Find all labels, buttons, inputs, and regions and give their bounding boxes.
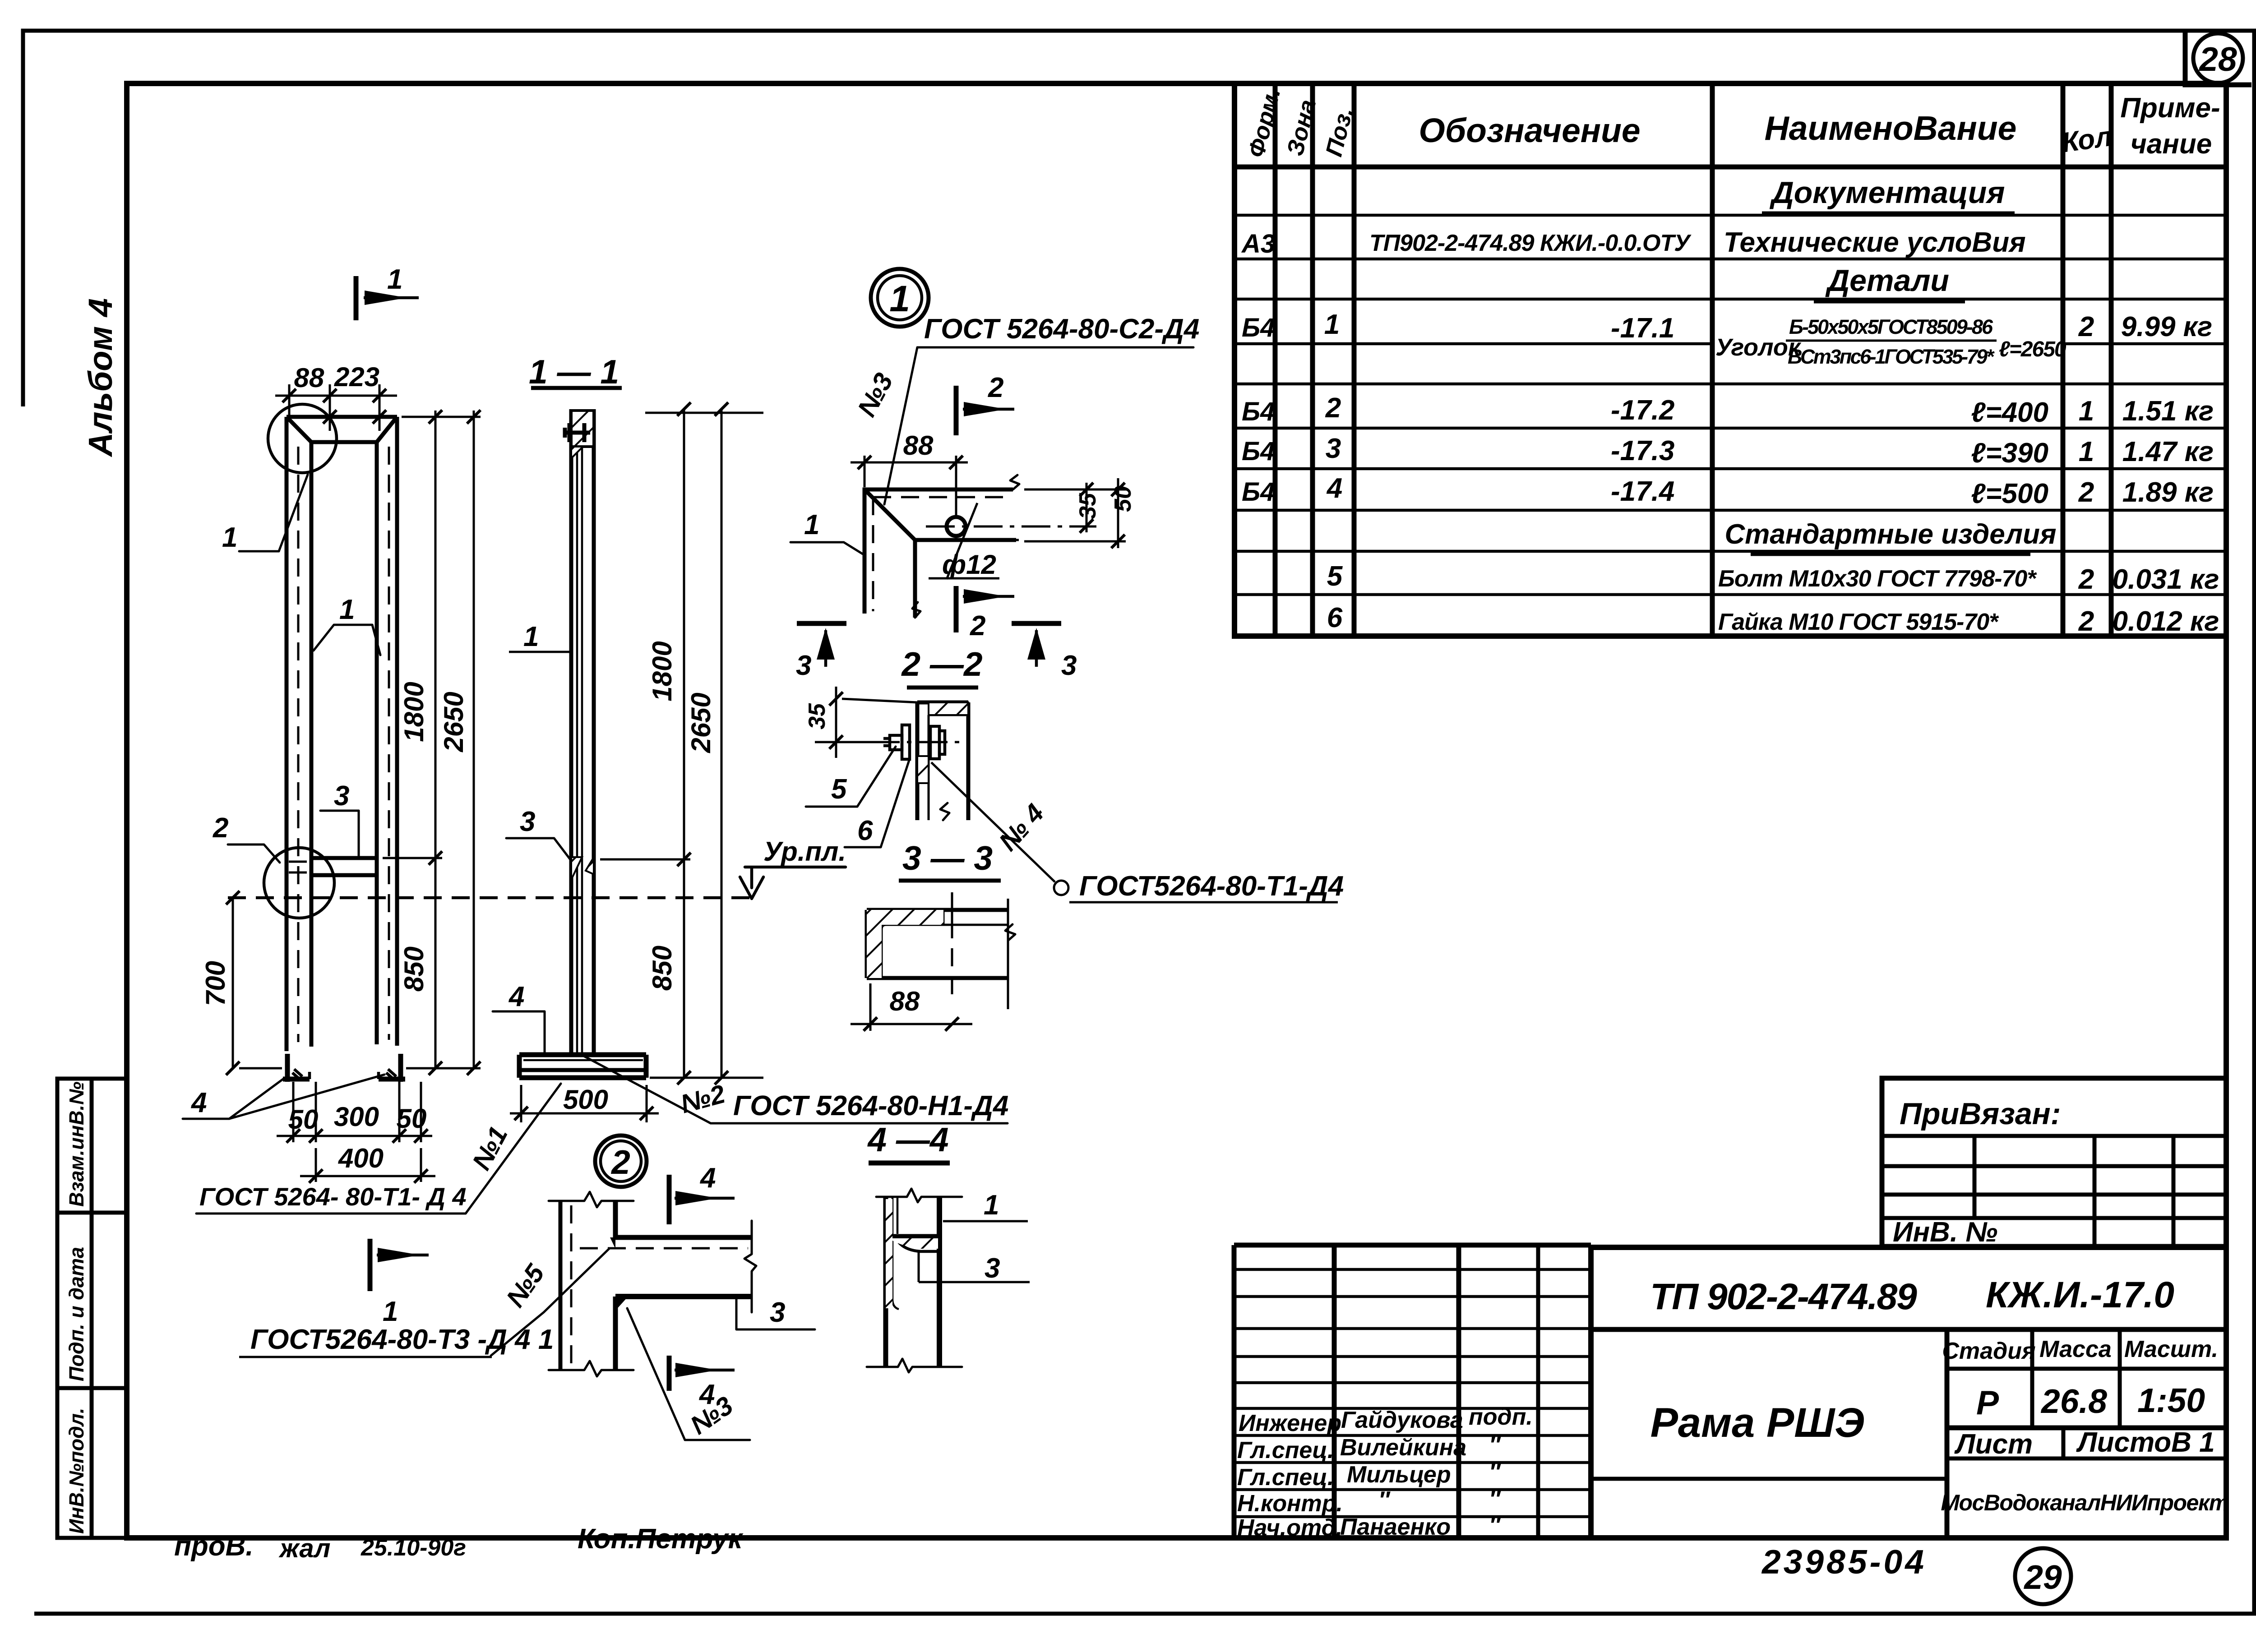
svg-text:1: 1 — [1324, 309, 1340, 340]
svg-text:Б-50х50х5ГОСТ8509-86: Б-50х50х5ГОСТ8509-86 — [1789, 315, 1993, 338]
svg-text:2 —2: 2 —2 — [901, 645, 982, 683]
svg-text:ℓ=2650: ℓ=2650 — [1999, 337, 2066, 361]
svg-text:ИнВ.№подл.: ИнВ.№подл. — [65, 1408, 88, 1534]
svg-text:Приме-: Приме- — [2120, 92, 2220, 124]
section 4-4 angle cut — [867, 1189, 962, 1372]
section 2-2 angle cut — [917, 702, 968, 820]
dims 1800 2650 850 section — [600, 402, 763, 1084]
ground dashed line — [228, 896, 750, 900]
svg-text:1.89 кг: 1.89 кг — [2122, 477, 2214, 508]
svg-text:ℓ=390: ℓ=390 — [1971, 438, 2048, 469]
svg-text:2: 2 — [2078, 311, 2094, 342]
svg-text:2650: 2650 — [439, 692, 469, 752]
svg-text:Лист: Лист — [1954, 1429, 2033, 1460]
privyazan box — [1882, 1078, 2226, 1246]
signature table — [1234, 1245, 1591, 1538]
svg-text:1: 1 — [2079, 436, 2094, 467]
svg-text:подп.: подп. — [1469, 1404, 1533, 1430]
svg-text:ТП 902-2-474.89: ТП 902-2-474.89 — [1650, 1276, 1917, 1317]
svg-text:А3: А3 — [1241, 229, 1275, 258]
svg-text:Гайка М10 ГОСТ 5915-70*: Гайка М10 ГОСТ 5915-70* — [1718, 609, 1999, 635]
svg-text:″: ″ — [1378, 1487, 1391, 1513]
svg-text:2: 2 — [2078, 606, 2094, 637]
svg-text:1.51 кг: 1.51 кг — [2122, 396, 2214, 427]
svg-text:88: 88 — [294, 363, 324, 393]
svg-text:2: 2 — [988, 372, 1003, 403]
svg-text:Вилейкина: Вилейкина — [1340, 1435, 1466, 1461]
elevation cross member pos.3 — [311, 858, 377, 875]
dim 700 — [200, 891, 282, 1075]
svg-text:5: 5 — [831, 774, 847, 805]
svg-text:1: 1 — [523, 621, 539, 652]
svg-text:50: 50 — [288, 1104, 319, 1135]
svg-text:23985-04: 23985-04 — [1761, 1543, 1927, 1581]
dim 88 section 3-3 — [851, 983, 972, 1031]
bolt M10 with nut — [871, 725, 970, 759]
svg-text:″: ″ — [1489, 1486, 1501, 1512]
dim 88 detail — [851, 430, 968, 517]
svg-text:Б4: Б4 — [1242, 437, 1275, 466]
dim 88 223 top — [275, 362, 397, 431]
section 1-1 weld top — [571, 447, 583, 458]
svg-text:4: 4 — [508, 981, 524, 1012]
svg-text:1: 1 — [222, 522, 237, 553]
section mark 2 top — [956, 372, 1014, 435]
svg-text:ℓ=500: ℓ=500 — [1971, 478, 2048, 509]
svg-text:3: 3 — [985, 1253, 1000, 1284]
svg-text:35: 35 — [1075, 493, 1101, 519]
detail circle 1 on corner — [268, 404, 337, 473]
svg-text:ГОСТ 5264- 80-Т1- Д 4: ГОСТ 5264- 80-Т1- Д 4 — [199, 1182, 467, 1211]
svg-text:Инженер: Инженер — [1239, 1410, 1341, 1436]
detail circle 2 on joint — [264, 848, 334, 918]
svg-text:1: 1 — [387, 264, 402, 295]
svg-text:1.47 кг: 1.47 кг — [2122, 436, 2214, 467]
section mark 4 bottom — [669, 1356, 735, 1410]
svg-text:3: 3 — [796, 650, 811, 681]
sheet number circle 29 — [2015, 1548, 2071, 1604]
dim 400 — [300, 1143, 435, 1183]
svg-text:″: ″ — [1489, 1432, 1501, 1458]
left stamp boxes — [57, 1079, 127, 1538]
svg-text:1: 1 — [889, 278, 910, 319]
section 1-1 top bolt — [564, 423, 590, 442]
svg-text:ПриВязан:: ПриВязан: — [1900, 1097, 2061, 1131]
dim 50 detail — [1024, 478, 1136, 548]
detail circle mark 1 — [871, 269, 929, 327]
svg-text:Мильцер: Мильцер — [1347, 1462, 1451, 1488]
svg-text:ЛистоВ 1: ЛистоВ 1 — [2076, 1427, 2215, 1458]
svg-text:НаименоВание: НаименоВание — [1765, 109, 2017, 147]
svg-text:жал: жал — [278, 1534, 330, 1563]
svg-text:ГОСТ 5264-80-С2-Д4: ГОСТ 5264-80-С2-Д4 — [924, 314, 1199, 345]
svg-text:26.8: 26.8 — [2040, 1382, 2107, 1420]
svg-text:Б4: Б4 — [1242, 313, 1275, 342]
section mark 3 right — [1012, 623, 1077, 681]
svg-text:0.031 кг: 0.031 кг — [2113, 564, 2219, 595]
elevation top member — [287, 417, 397, 442]
svg-text:35: 35 — [804, 703, 830, 729]
svg-text:5: 5 — [1327, 561, 1343, 592]
svg-text:3: 3 — [520, 806, 535, 837]
section mark 2 bottom — [956, 586, 1014, 641]
svg-text:Гл.спец.: Гл.спец. — [1237, 1464, 1334, 1490]
section 1-1 base plate — [519, 1055, 646, 1078]
svg-text:″: ″ — [1489, 1459, 1501, 1485]
svg-text:Масса: Масса — [2039, 1336, 2112, 1362]
svg-text:-17.4: -17.4 — [1611, 476, 1674, 507]
section 1-1 top beam cut — [571, 411, 594, 447]
svg-text:6: 6 — [1327, 602, 1343, 633]
svg-text:25.10-90г: 25.10-90г — [361, 1535, 466, 1561]
svg-text:Б4: Б4 — [1242, 477, 1275, 507]
section mark 1 top — [356, 264, 419, 320]
dim lines 1800 2650 left view — [383, 410, 481, 1075]
svg-text:2: 2 — [970, 610, 985, 641]
svg-text:МосВодоканалНИИпроект: МосВодоканалНИИпроект — [1941, 1490, 2228, 1515]
dim 500 — [510, 1084, 659, 1122]
svg-text:Р: Р — [1976, 1384, 1999, 1421]
section 2-2 break mark — [940, 803, 949, 820]
svg-text:Ур.пл.: Ур.пл. — [763, 836, 846, 867]
detail circle 2 bottom — [595, 1135, 647, 1187]
svg-text:Альбом 4: Альбом 4 — [82, 298, 119, 457]
detail 2 weld triangle — [615, 1297, 628, 1311]
svg-text:-17.2: -17.2 — [1611, 395, 1674, 426]
right foot pos.4 — [379, 1054, 405, 1082]
sheet number box 28 — [2185, 32, 2251, 85]
svg-text:2: 2 — [610, 1143, 630, 1181]
svg-text:ф12: ф12 — [942, 549, 996, 580]
svg-text:ИнВ. №: ИнВ. № — [1893, 1217, 1997, 1248]
left foot pos.4 — [283, 1054, 310, 1082]
svg-text:3: 3 — [770, 1297, 785, 1328]
svg-text:4 —4: 4 —4 — [867, 1121, 948, 1158]
svg-text:3 — 3: 3 — 3 — [902, 839, 993, 877]
svg-text:-17.1: -17.1 — [1611, 313, 1674, 344]
svg-text:Коп.Петрук: Коп.Петрук — [578, 1523, 744, 1555]
svg-text:28: 28 — [2198, 40, 2237, 78]
section mark 4 top — [669, 1163, 735, 1224]
svg-text:Б4: Б4 — [1242, 397, 1275, 426]
svg-text:2650: 2650 — [686, 692, 716, 753]
svg-text:700: 700 — [200, 961, 231, 1006]
svg-text:ГОСТ5264-80-Т3 -Д 4 1: ГОСТ5264-80-Т3 -Д 4 1 — [250, 1324, 554, 1355]
svg-text:2: 2 — [1325, 392, 1341, 424]
svg-text:проВ.: проВ. — [174, 1531, 254, 1562]
dim 50 300 50 — [277, 1082, 432, 1143]
svg-text:50: 50 — [397, 1103, 427, 1134]
section mark 1 bottom — [370, 1239, 429, 1327]
section mark 3 left — [796, 623, 846, 681]
svg-text:ГОСТ 5264-80-Н1-Д4: ГОСТ 5264-80-Н1-Д4 — [733, 1090, 1008, 1121]
svg-text:Гайдукова: Гайдукова — [1341, 1407, 1463, 1433]
svg-text:1: 1 — [339, 594, 355, 625]
svg-text:3: 3 — [334, 780, 349, 812]
ground level mark — [740, 836, 846, 899]
svg-text:1: 1 — [383, 1296, 398, 1327]
svg-text:Обозначение: Обозначение — [1419, 111, 1640, 149]
svg-text:1 — 1: 1 — 1 — [529, 353, 619, 391]
svg-text:2: 2 — [2078, 564, 2094, 595]
svg-text:Болт М10х30 ГОСТ 7798-70*: Болт М10х30 ГОСТ 7798-70* — [1718, 566, 2037, 592]
svg-text:Нач.отд.: Нач.отд. — [1237, 1515, 1342, 1541]
detail 1 corner plan — [864, 475, 1019, 618]
bolt hole d12 — [947, 517, 966, 536]
svg-text:Стадия: Стадия — [1942, 1338, 2035, 1364]
svg-text:ℓ=400: ℓ=400 — [1971, 397, 2048, 428]
section 1-1 column — [571, 409, 594, 1055]
svg-text:Рама РШЭ: Рама РШЭ — [1650, 1400, 1865, 1446]
svg-text:1:50: 1:50 — [2137, 1381, 2205, 1419]
section 3-3 channel cut — [867, 892, 1015, 1009]
svg-text:Детали: Детали — [1825, 263, 1949, 298]
svg-text:4: 4 — [1326, 473, 1342, 504]
svg-text:3: 3 — [1326, 433, 1341, 464]
dim 35 section 2-2 — [804, 687, 917, 758]
svg-text:чание: чание — [2131, 129, 2212, 160]
parts list table grid — [1234, 83, 2226, 636]
svg-text:Н.контр.: Н.контр. — [1237, 1490, 1343, 1517]
svg-text:850: 850 — [399, 946, 429, 992]
svg-text:Документация: Документация — [1770, 175, 2005, 210]
svg-text:КЖ.И.-17.0: КЖ.И.-17.0 — [1986, 1274, 2174, 1315]
svg-text:Масшт.: Масшт. — [2124, 1336, 2218, 1362]
svg-text:0.012 кг: 0.012 кг — [2113, 606, 2219, 637]
svg-text:400: 400 — [338, 1143, 384, 1173]
svg-text:88: 88 — [890, 986, 920, 1016]
svg-text:9.99 кг: 9.99 кг — [2121, 311, 2212, 342]
svg-text:ВСт3пс6-1ГОСТ535-79*: ВСт3пс6-1ГОСТ535-79* — [1788, 345, 1995, 368]
svg-text:2: 2 — [2078, 477, 2094, 508]
svg-text:1800: 1800 — [647, 641, 677, 701]
svg-text:Стандартные изделия: Стандартные изделия — [1725, 519, 2057, 550]
svg-text:Технические услоВия: Технические услоВия — [1724, 227, 2026, 258]
svg-text:2: 2 — [213, 812, 228, 844]
svg-text:Подп. и дата: Подп. и дата — [65, 1247, 88, 1381]
section 1-1 weld at joint — [571, 857, 582, 880]
svg-text:-17.3: -17.3 — [1611, 435, 1674, 466]
svg-text:Панаенко: Панаенко — [1340, 1514, 1451, 1540]
svg-text:50: 50 — [1110, 486, 1136, 512]
svg-text:300: 300 — [334, 1102, 379, 1132]
svg-text:4: 4 — [699, 1163, 716, 1194]
svg-text:29: 29 — [2023, 1558, 2062, 1596]
svg-text:1: 1 — [804, 509, 819, 540]
svg-text:Гл.спец.: Гл.спец. — [1237, 1437, 1334, 1463]
svg-text:″: ″ — [1489, 1512, 1501, 1538]
svg-text:850: 850 — [647, 946, 677, 991]
detail 2 bracket pos.3 — [580, 1221, 756, 1312]
elevation left column — [287, 417, 311, 1051]
title block main outline — [1591, 1247, 2226, 1538]
svg-text:223: 223 — [334, 362, 379, 392]
svg-text:88: 88 — [903, 430, 934, 461]
dim 35 detail — [1075, 483, 1101, 533]
svg-text:1800: 1800 — [399, 682, 429, 742]
svg-text:ТП902-2-474.89 КЖИ.-0.0.ОТУ: ТП902-2-474.89 КЖИ.-0.0.ОТУ — [1369, 230, 1692, 256]
svg-text:ГОСТ5264-80-Т1-Д4: ГОСТ5264-80-Т1-Д4 — [1079, 871, 1344, 902]
detail 2 column — [549, 1192, 633, 1376]
svg-text:Взам.инВ.№: Взам.инВ.№ — [65, 1081, 88, 1207]
svg-text:6: 6 — [857, 815, 873, 846]
svg-text:1: 1 — [2079, 396, 2094, 427]
elevation right column — [377, 417, 397, 1046]
svg-text:3: 3 — [1061, 650, 1077, 681]
svg-text:4: 4 — [190, 1087, 207, 1118]
svg-text:1: 1 — [984, 1190, 999, 1221]
svg-text:500: 500 — [563, 1084, 608, 1115]
